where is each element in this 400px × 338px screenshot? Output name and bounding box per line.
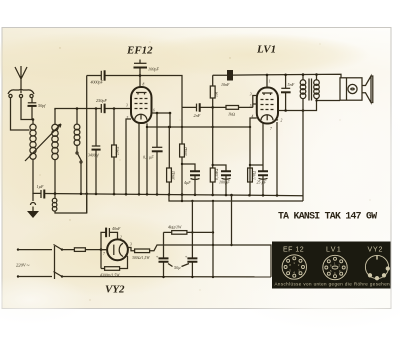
svg-text:2: 2 [120,236,122,240]
wire terminal1 to coil1 tap [11,98,30,130]
capacitor C 250pF [96,98,107,113]
svg-text:1M: 1M [214,91,219,97]
switch S1 wave band [76,148,82,194]
wire LV1 grid bracket [253,96,257,108]
LV1 pin numbers [250,80,283,132]
choke coil L4 [52,194,86,213]
wire long vertical left [86,76,88,214]
junction dot coupling [211,106,214,109]
wire corner L2 top [55,109,56,111]
svg-text:10nF: 10nF [221,82,230,87]
svg-text:TA KANSI TAK 147 GW: TA KANSI TAK 147 GW [278,210,377,221]
wire B+ down [192,201,213,277]
resistor R 30k [167,113,176,195]
svg-text:100pF: 100pF [148,67,159,72]
svg-text:220V∼: 220V∼ [16,263,30,268]
socket EF12 [282,255,306,279]
svg-text:40nF: 40nF [112,226,121,231]
svg-text:8: 8 [143,83,145,87]
resistor R 300 1.5W [132,249,150,261]
svg-text:+: + [156,254,159,259]
label 50uF shared [168,264,189,271]
capacitor C 40nF [101,226,121,269]
resistor R 0.3M [210,107,220,195]
svg-text:5: 5 [250,104,252,108]
tuning arrow [25,124,61,161]
coil L3 [74,109,80,148]
svg-text:5nF: 5nF [288,82,295,87]
coil L1 antenna [30,120,36,195]
svg-text:1: 1 [269,80,271,84]
capacitor C 50uF a [156,232,169,277]
capacitor 50pf [28,98,47,120]
tube EF12 [131,87,152,123]
bottom bus dots [162,276,193,278]
wire heater drop [231,195,233,245]
socket panel [272,242,391,289]
svg-text:50pf: 50pf [38,103,46,108]
wire LV1 anode stub [266,75,268,88]
resistor R 4k 1W [164,225,214,235]
capacitor C 4000pF [91,70,105,84]
node dot VY2 [100,248,103,251]
capacitor C 10nF block [221,70,233,87]
svg-text:1kΩ: 1kΩ [228,112,235,117]
svg-text:+: + [185,254,188,259]
wire secondary return [303,101,317,111]
wire top rail LV1 [213,74,341,78]
svg-text:100µF: 100µF [219,180,230,185]
node A dot [32,118,35,121]
tube VY2 [107,239,128,260]
LV1 pin2 arc [274,120,279,123]
junction dot anode rail [139,74,142,77]
resistor R 50k anode [180,107,188,201]
wire LV1 pin4 [250,118,257,195]
wire top rail EF12 [87,76,182,108]
bus2 heater line [169,195,303,202]
svg-text:LV1: LV1 [326,247,342,254]
svg-text:7: 7 [270,127,272,131]
capacitor C 2nF [194,103,201,118]
resistor R 1M [210,75,218,107]
coil L2 tuning [52,124,58,194]
capacitor C 0.1uF [143,113,163,195]
capacitor C 3400pf [88,109,101,195]
antenna brace [8,90,34,95]
resistor R 170 cathode [248,168,257,182]
resistor R 2M [112,109,120,195]
svg-text:EF12: EF12 [126,45,153,57]
antenna terminals [9,94,33,97]
svg-text:VY2: VY2 [368,247,384,254]
wire EF12 screen [152,112,171,114]
wire LV1 cathode stub [262,124,264,166]
wire grid line EF12 [56,108,131,110]
speaker LS [340,76,373,103]
wire LV1 pin2 down [276,122,278,196]
svg-text:3: 3 [126,104,128,108]
capacitor C 4uF electrolytic [181,163,200,195]
svg-text:3400pf: 3400pf [88,154,99,158]
svg-text:1µF: 1µF [37,184,45,189]
svg-text:3: 3 [250,93,252,97]
svg-text:2nF: 2nF [194,113,201,118]
bus junction dots [54,192,279,196]
wire VY2 pin3 [128,248,135,251]
wire mains to VY2 [62,249,108,251]
wire primary return [302,101,304,201]
svg-text:25 µF: 25 µF [257,180,267,185]
svg-text:EF 12: EF 12 [283,247,304,254]
wire mains bottom bus [62,276,271,278]
junction dots grid line [76,107,116,110]
svg-text:50µ: 50µ [174,265,181,270]
wire VY2 output [150,245,271,277]
transformer T1 [300,73,319,101]
wire coupling line [182,106,253,108]
svg-text:50kΩ: 50kΩ [183,147,188,156]
wire terminal2 to node A [21,98,33,120]
wire EF12 pin5 [126,119,131,194]
svg-text:7: 7 [103,252,105,256]
svg-text:4kΩ/1W: 4kΩ/1W [168,225,182,230]
svg-text:4000pF: 4000pF [91,80,104,85]
switch S2 mains [54,245,64,280]
svg-text:2: 2 [281,119,283,123]
svg-text:2MΩ: 2MΩ [115,147,120,155]
svg-text:6: 6 [153,109,155,113]
antenna [15,66,27,93]
resistor R 4300 heater [100,255,128,279]
capacitor C 100uF [212,164,232,195]
resistor R mains series [74,248,85,252]
capacitor C 100pF top [134,60,160,88]
svg-text:Anschlüsse von unten gegen die: Anschlüsse von unten gegen die Röhre ges… [275,282,392,287]
wire secondary to speaker [317,100,341,102]
svg-text:VY2: VY2 [105,284,125,296]
svg-text:LV1: LV1 [256,44,276,56]
socket VY2 [365,255,389,280]
svg-text:250pF: 250pF [96,98,107,103]
mains terminals [16,248,52,277]
capacitor C 1uF in bus [37,184,45,199]
wire cathode line [147,126,250,128]
svg-text:4µF: 4µF [184,180,191,185]
wire EF12 bottom pins [139,123,147,195]
resistor R 1k [226,106,239,117]
capacitor C 5nF [281,74,295,111]
tube LV1 [257,88,278,124]
svg-text:3: 3 [130,243,132,247]
wire coil L2 top [54,109,56,125]
ground [27,193,39,218]
ground bus [33,193,303,195]
VY2 pin numbers [103,236,132,257]
socket LV1 [323,255,347,279]
capacitor C 25uF cathode [249,164,268,196]
capacitor C 50uF b [185,232,198,277]
svg-text:30kΩ: 30kΩ [171,171,176,180]
wire LV1 anode out [278,110,303,112]
EF12 pin numbers [126,83,155,121]
